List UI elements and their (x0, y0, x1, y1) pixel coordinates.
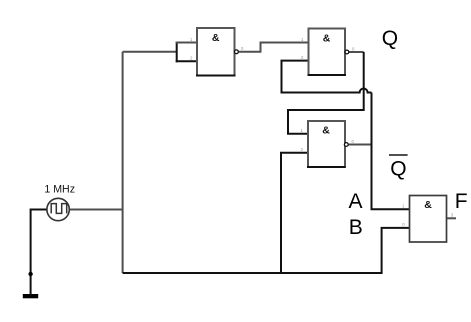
wire bus to U1 inputs (123, 51, 177, 53)
svg-text:1 MHz: 1 MHz (44, 184, 75, 196)
wire clock bus vertical (122, 52, 124, 273)
svg-text:Q: Q (390, 158, 406, 181)
svg-text:&: & (322, 125, 330, 137)
wire Qbar feedback to U2 pin2 with hop (282, 61, 372, 93)
wire U2 output stub (349, 51, 364, 53)
svg-text:B: B (349, 216, 363, 239)
ground (23, 294, 38, 298)
node Qbar label (389, 155, 408, 181)
junction dot (28, 272, 32, 276)
wire U3 output to node Qbar (348, 144, 371, 146)
wire U4 output (447, 217, 457, 219)
clock source V1 1 MHz (44, 184, 75, 221)
nand gate U1 (190, 28, 244, 76)
svg-text:F: F (455, 190, 468, 213)
wire clock output to bus (69, 209, 122, 211)
wire clock to ground (31, 210, 47, 295)
svg-text:&: & (212, 32, 220, 44)
svg-text:Q: Q (382, 27, 398, 50)
wire node Q feedback to U3 pin1 (288, 52, 364, 134)
wire bottom bus to U4 pin2 (123, 228, 410, 273)
svg-text:&: & (323, 33, 331, 45)
and gate U4 (402, 196, 454, 243)
svg-text:A: A (349, 190, 363, 213)
wire node Qbar vertical and A leg to U4 pin1 (372, 93, 410, 210)
wire U1 pin2 stub (176, 60, 197, 62)
wire U1 output to U2 pin1 (238, 43, 308, 52)
svg-text:&: & (424, 199, 432, 211)
wire branch to U3 pin2 (281, 153, 308, 273)
wire U1 pin1 stub (176, 42, 197, 44)
nand gate U3 (301, 121, 355, 167)
nand gate U2 (301, 29, 355, 76)
wire U1 input tie vertical (176, 42, 178, 63)
